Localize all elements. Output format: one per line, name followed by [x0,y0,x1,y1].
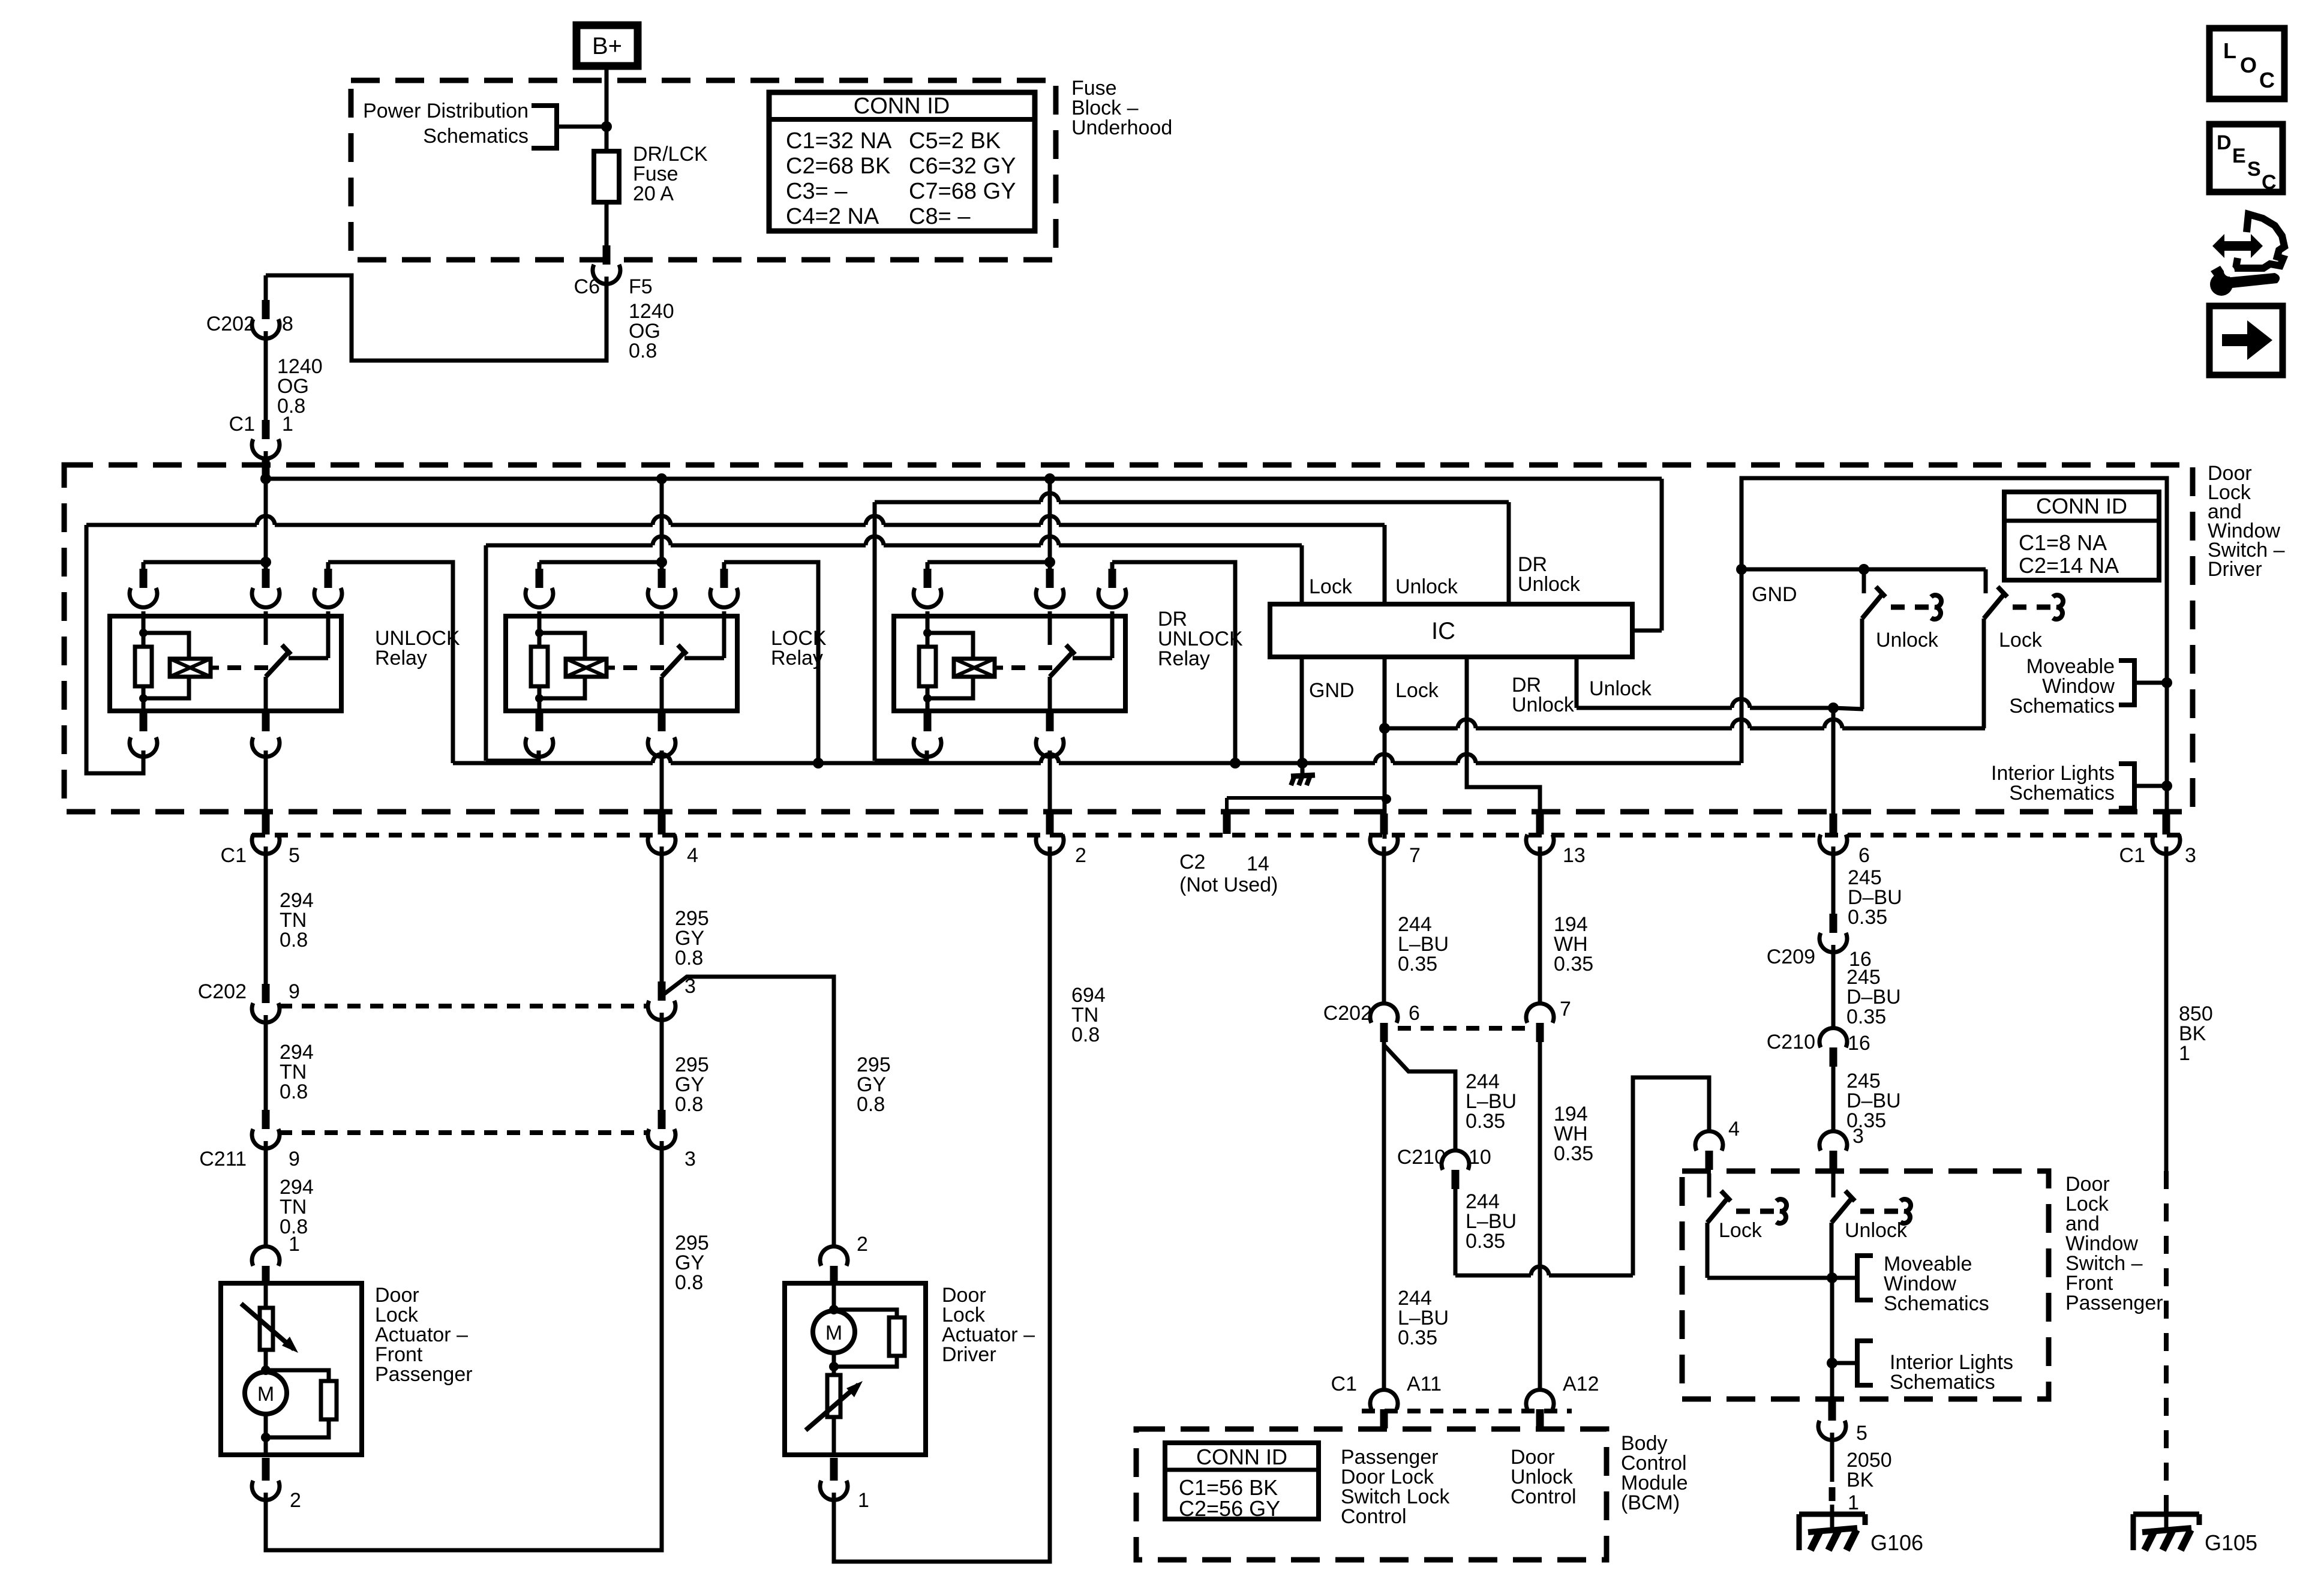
motor M (driver) [829,1305,839,1314]
svg-text:9: 9 [289,1148,300,1170]
relay UNLOCK (U1): top horizontal link [143,560,266,565]
svg-text:CONN ID: CONN ID [1196,1445,1287,1469]
wire: battery bus [266,477,1662,481]
conn-id table (fuse block) [769,92,1035,231]
wire: C210 to pin 3 [1831,1067,1836,1132]
connector C6 / F5 [603,245,611,265]
svg-text:13: 13 [1563,844,1586,867]
svg-text:CONN ID: CONN ID [854,94,950,119]
relay DR UNLOCK (U3): switch blade [1050,652,1073,677]
svg-text:C1: C1 [221,844,247,867]
svg-text:C202: C202 [1323,1002,1372,1025]
wire: C202-6 branch to C210-10 [1384,1045,1455,1152]
wire: C1-1 into switch assembly [264,451,268,479]
svg-text:2: 2 [857,1233,868,1256]
wire: relay common / ground bus [453,761,653,766]
svg-text:Lock: Lock [1395,679,1439,702]
variable resistor (FP actuator) [260,1308,273,1350]
wire: dr unlock relay coil return route [875,751,927,761]
bracket: power distribution reference [532,106,557,148]
svg-text:Schematics: Schematics [2009,695,2115,718]
wire: C202-8 to C1-1 [264,331,268,421]
svg-text:F5: F5 [629,275,653,298]
svg-text:Unlock: Unlock [1518,573,1581,596]
svg-text:Driver: Driver [942,1343,996,1366]
wire: C2-14 stub link [1227,796,1386,800]
relay DR UNLOCK (U3): output pin (bottom middle) [1046,713,1054,731]
relay LOCK (U2): actuation dashed link [606,666,615,670]
svg-text:(Not Used): (Not Used) [1179,873,1278,896]
relay LOCK (U2): switch blade [662,652,684,677]
svg-text:1: 1 [2179,1042,2190,1065]
connector line BCM [1362,1409,1572,1413]
relay UNLOCK (U1): coil (solenoid box) [143,633,189,659]
svg-text:6: 6 [1409,1002,1420,1025]
connector line C211 (9-3) [279,1130,648,1135]
svg-text:6: 6 [1858,844,1870,867]
wire: IC GND pin [1300,657,1304,763]
connector C202 pin 3 [658,981,666,1001]
svg-text:C5=2 BK: C5=2 BK [909,128,1001,154]
wire: 295 GY from C1-4 [660,846,664,982]
wire: lock relay coil return bus [486,544,653,548]
svg-text:C1=32 NA: C1=32 NA [786,128,892,154]
svg-text:C1: C1 [2119,844,2145,867]
svg-text:2: 2 [1075,844,1086,867]
connector C1 pin 2 [1046,813,1054,833]
svg-text:Schematics: Schematics [1890,1371,1995,1394]
svg-text:16: 16 [1848,1032,1870,1055]
relay UNLOCK (U1): common pin (middle) [264,562,268,579]
wire: C210-10 to FP lock switch [1454,1189,1458,1275]
svg-text:5: 5 [1856,1422,1867,1445]
svg-text:C202: C202 [206,313,255,335]
ground: internal chassis ground [1301,763,1305,775]
bracket: Moveable Window Schematics (driver) [2119,661,2134,705]
relay UNLOCK (U1): coil resistor [142,611,146,647]
relay LOCK (U2): coil (solenoid box) [539,633,585,659]
svg-text:(BCM): (BCM) [1621,1491,1680,1514]
svg-text:C210: C210 [1397,1146,1446,1169]
wire: unlock line to switch [1577,706,1732,710]
wire: lock relay output to common bus [724,562,818,763]
wire: relay feed verticals [264,479,268,564]
wire: IC Lock output to pin C1-7 column [1383,657,1387,839]
relay UNLOCK (U1): body [110,616,341,711]
svg-text:0.8: 0.8 [1071,1023,1100,1046]
svg-text:0.35: 0.35 [1848,906,1887,929]
svg-text:0.35: 0.35 [1398,953,1437,975]
wire: 294 TN C211-9 to actuator [264,1141,268,1247]
relay UNLOCK (U1): coil feed pin (left) [142,562,146,579]
svg-text:Passenger: Passenger [2065,1292,2163,1314]
relay UNLOCK (U1): switch blade [266,652,289,677]
wire: lock relay coil return route [486,751,539,761]
motor M (front passenger) [245,1372,287,1414]
svg-text:C7=68 GY: C7=68 GY [909,179,1016,204]
connector C202 pin 6 [1370,1004,1398,1023]
svg-text:C6=32 GY: C6=32 GY [909,154,1016,179]
svg-text:C2: C2 [1179,851,1205,873]
connector C211 pin 3 [658,1110,666,1129]
svg-text:Lock: Lock [1719,1219,1762,1242]
wire: C202-6 to BCM A11 [1382,1042,1386,1392]
connector C202 pin 8 [262,300,270,319]
svg-text:G105: G105 [2205,1530,2257,1555]
connector C1 pin 1 [262,420,270,439]
wire: 194 WH from C1-13 [1538,846,1542,1005]
svg-text:4: 4 [1728,1118,1740,1140]
door lock actuator - driver body [785,1283,926,1455]
ground G106 [1799,1512,1865,1517]
wire: 850 BK reference (dashed) [2164,1171,2169,1514]
svg-text:0.35: 0.35 [1466,1230,1505,1253]
relay UNLOCK (U1): coil return pin (bottom left) [140,713,148,731]
switch: Unlock (driver) [1862,569,1866,593]
relay DR UNLOCK (U3): body [894,616,1125,711]
svg-text:C2=68 BK: C2=68 BK [786,154,890,179]
conn-id table (BCM) [1165,1443,1319,1519]
svg-text:Unlock: Unlock [1876,629,1939,652]
connector BCM A11 [1370,1390,1398,1409]
svg-text:S: S [2247,158,2261,181]
svg-text:C2=14 NA: C2=14 NA [2019,553,2119,578]
node: battery bus at C1-1 [260,473,271,484]
svg-text:Unlock: Unlock [1395,575,1458,598]
svg-text:Relay: Relay [1158,647,1210,670]
svg-text:C1: C1 [229,413,255,436]
svg-text:20 A: 20 A [633,182,674,205]
svg-text:0.8: 0.8 [675,1093,703,1116]
bracket: Interior Lights Schematics (FP) [1857,1341,1873,1385]
svg-text:9: 9 [289,980,300,1003]
connector: FP switch pin 3 [1819,1131,1847,1151]
svg-text:7: 7 [1560,998,1571,1020]
wire: 294 TN C202-9 to C211-9 [264,1015,268,1110]
svg-text:0.35: 0.35 [1398,1326,1437,1349]
relay DR UNLOCK (U3): coil resistor [926,611,930,647]
door lock actuator - front passenger body [221,1283,362,1455]
body control module dashed outline [1136,1429,1607,1560]
relay LOCK (U2): common pin (middle) [660,562,664,579]
connector C210 pin 10 [1442,1151,1469,1170]
wire: FP switch common [1707,1276,1832,1280]
svg-text:Power Distribution: Power Distribution [363,100,529,122]
wire: pin 6 feed [1831,708,1836,816]
svg-text:D: D [2217,131,2232,154]
svg-text:B+: B+ [592,33,622,59]
bracket: Interior Lights Schematics (driver) [2119,764,2134,808]
wire: B+ to fuse [605,66,609,151]
relay DR UNLOCK (U3): coil (solenoid box) [927,633,973,659]
svg-text:0.8: 0.8 [280,1080,308,1103]
svg-text:M: M [825,1322,842,1344]
wire: dr unlock relay coil return bus [875,500,1041,505]
svg-text:C1: C1 [1331,1373,1357,1395]
svg-text:A12: A12 [1563,1373,1599,1395]
svg-text:Relay: Relay [375,647,427,670]
wire: switch ground link [1742,568,1986,572]
svg-text:C1=8 NA: C1=8 NA [2019,530,2107,555]
wire: unlock relay output to common bus [328,562,453,763]
connector C1 pin 6 [1830,813,1837,833]
wire: FP motor to pin 2 [264,1414,268,1455]
connector C1 pin 3 [2163,813,2170,833]
svg-text:5: 5 [289,844,300,867]
node: dr unlock output junction [1230,758,1241,769]
svg-text:Control: Control [1341,1505,1407,1528]
wire: lock line to switch [1385,727,1458,731]
connector C1 pin 4 [658,813,666,833]
svg-text:Relay: Relay [771,647,823,670]
wire: fuse to C6 connector [605,202,609,246]
relay LOCK (U2): body [506,616,737,711]
wire: dr unlock relay output to common bus [1112,562,1235,763]
svg-text:CONN ID: CONN ID [2036,494,2127,518]
icon: service arrow and wrench [2212,234,2263,258]
connector line C202 (6-7) [1398,1026,1527,1031]
svg-text:4: 4 [687,844,698,867]
svg-text:BK: BK [1846,1469,1874,1491]
svg-text:1: 1 [858,1489,869,1512]
node: lock output junction [813,758,824,769]
svg-text:C8= –: C8= – [909,204,971,229]
svg-text:E: E [2232,145,2246,167]
svg-text:Driver: Driver [2208,558,2262,581]
relay UNLOCK (U1): output pin (bottom middle) [262,713,270,731]
ground G105 [2133,1512,2199,1517]
wire: 294 TN from C1-5 [264,846,268,984]
connector C209 pin 16 [1830,914,1837,933]
svg-text:2: 2 [290,1489,301,1512]
svg-text:C4=2 NA: C4=2 NA [786,204,879,229]
svg-text:0.35: 0.35 [1466,1110,1505,1133]
switch: Lock (front passenger) [1707,1173,1712,1197]
node: unlock switch feed [1858,564,1869,575]
connector C1 pin 5 [262,813,270,833]
svg-text:M: M [257,1383,274,1406]
wire: IC Unlock output line [1575,657,1579,708]
svg-text:0.8: 0.8 [675,1271,703,1294]
svg-text:0.8: 0.8 [857,1093,885,1116]
svg-text:Control: Control [1511,1485,1577,1508]
svg-text:1: 1 [282,413,293,436]
node: IC GND junction [1297,758,1308,769]
door lock and window switch - front passenger dashed outline [1682,1171,2049,1399]
relay DR UNLOCK (U3): NO contact pin (right) [1110,562,1115,579]
svg-text:Unlock: Unlock [1512,694,1575,716]
fuse F5 DR/LCK 20A [594,151,619,202]
svg-text:A11: A11 [1407,1373,1442,1395]
svg-text:Underhood: Underhood [1071,116,1172,139]
connector C1 pin 7 [1380,813,1388,833]
wire: 2050 BK to G106 [1830,1433,1834,1482]
wire: 245 D-BU C1-6 to C209 [1831,846,1836,914]
wire: FP actuator internal [264,1350,268,1372]
svg-text:0.35: 0.35 [1554,953,1593,975]
wire: unlock relay output down to C1-5 [264,751,268,816]
connector: FP switch pin 5 [1828,1401,1836,1419]
svg-text:3: 3 [1852,1125,1864,1148]
node: fuse feed junction [601,121,612,132]
node: GND [1736,564,1747,575]
relay UNLOCK (U1): actuation dashed link [211,666,219,670]
connector C210 pin 16 [1819,1028,1847,1047]
relay UNLOCK (U1): NO contact pin (right) [326,562,331,579]
fuse block - underhood dashed outline [351,80,1056,260]
connector C1 pin 13 [1536,813,1544,833]
door lock and window switch - driver dashed outline [64,465,2193,812]
relay DR UNLOCK (U3): common pin (middle) [1048,562,1052,579]
connector: FP switch pin 4 [1695,1131,1723,1151]
connector line C202 (9-3) [279,1004,648,1008]
svg-text:O: O [2240,53,2257,77]
relay DR UNLOCK (U3): actuation dashed link [995,666,1003,670]
svg-text:7: 7 [1409,844,1421,867]
relay LOCK (U2): top horizontal link [539,560,662,565]
svg-text:1: 1 [1848,1491,1859,1514]
node: lock line junction [1379,723,1390,734]
svg-text:C211: C211 [199,1148,247,1170]
wire: driver actuator to pin 1 [832,1417,836,1455]
connector: front passenger actuator pin 1 [252,1247,280,1266]
resistor parallel (FP actuator) [266,1370,329,1381]
connector: driver actuator pin 2 [820,1247,848,1266]
bracket: Moveable Window Schematics (FP) [1857,1256,1873,1300]
IC U4 (driver switch logic) [1270,604,1632,657]
svg-text:C: C [2262,171,2277,194]
connector C202 pin 7 [1526,1004,1554,1023]
svg-text:IC: IC [1431,618,1455,644]
wire: dr unlock relay output down to C1-2 [1048,751,1052,816]
svg-text:3: 3 [684,1148,696,1170]
svg-text:L: L [2223,38,2236,63]
relay DR UNLOCK (U3): coil feed pin (left) [926,562,930,579]
svg-text:0.8: 0.8 [675,947,703,969]
conn-id table (driver switch) [2004,492,2159,580]
connector C211 pin 9 [262,1110,270,1129]
wire: C6 to C202-8 routing [266,275,606,361]
wire: lock relay output down to C1-4 [660,751,664,816]
variable resistor (driver actuator) [832,1353,836,1375]
svg-text:Passenger: Passenger [375,1363,473,1386]
wire: unlock relay coil return route [86,525,143,773]
connector C2 pin 14 (not used) [1225,798,1229,813]
switch: Lock (driver) [1984,569,1988,593]
power symbol B+ [577,25,638,66]
svg-text:GND: GND [1752,583,1797,606]
relay LOCK (U2): output pin (bottom middle) [658,713,666,731]
svg-text:GND: GND [1309,679,1355,702]
connector: FP actuator pin 2 [262,1458,270,1477]
icon: DESC box [2209,124,2283,192]
wire: FP switch to pin 5 [1830,1278,1834,1399]
wire: GND node vertical [1740,569,1744,763]
wire: unlock relay coil return bus [86,523,257,527]
svg-text:C209: C209 [1767,945,1815,968]
svg-text:0.35: 0.35 [1554,1142,1593,1165]
svg-text:C202: C202 [198,980,247,1003]
wire: C209 to C210 [1831,945,1836,1029]
svg-text:Schematics: Schematics [1884,1292,1989,1315]
icon: next-page arrow box [2209,306,2283,375]
connector BCM A12 [1526,1390,1554,1409]
relay DR UNLOCK (U3): coil return pin (bottom left) [924,713,932,731]
svg-text:C6: C6 [574,275,600,298]
wire: 295 GY C202-3 to C211-3 [660,1013,664,1110]
svg-text:3: 3 [2185,844,2196,867]
wire: driver switch frame [1742,478,2167,812]
svg-text:Unlock: Unlock [1845,1219,1908,1242]
icon: LOC box [2209,28,2284,99]
svg-text:Schematics: Schematics [2009,782,2115,804]
svg-text:C2=56 GY: C2=56 GY [1179,1496,1280,1521]
relay DR UNLOCK (U3): top horizontal link [927,560,1050,565]
node: unlock line junction [1828,703,1839,713]
resistor parallel (driver actuator) [834,1310,897,1317]
svg-text:Schematics: Schematics [423,125,529,148]
svg-text:C210: C210 [1767,1031,1815,1053]
relay LOCK (U2): NO contact pin (right) [722,562,726,579]
svg-text:0.8: 0.8 [629,340,657,362]
svg-text:C3= –: C3= – [786,179,848,204]
connector line C1/C2 (driver switch) [252,833,2184,837]
relay LOCK (U2): coil resistor [538,611,542,647]
wire: driver actuator return to 694 TN [834,846,1050,1562]
svg-text:G106: G106 [1870,1530,1923,1555]
switch: Unlock (front passenger) [1831,1173,1836,1197]
connector: driver actuator pin 1 [830,1458,838,1477]
svg-text:0.8: 0.8 [280,929,308,951]
svg-text:8: 8 [282,313,293,335]
svg-text:10: 10 [1469,1146,1491,1169]
svg-text:0.35: 0.35 [1846,1005,1886,1028]
wire: FP actuator return to 295 GY [266,1141,662,1550]
svg-text:Lock: Lock [1309,575,1353,598]
relay LOCK (U2): coil return pin (bottom left) [536,713,544,731]
wire: IC DR Unlock output to pin 13 [1467,657,1540,816]
wire: 244 L-BU from C1-7 [1382,846,1386,1005]
svg-text:Unlock: Unlock [1589,677,1652,700]
wire: 194 WH to BCM A12 [1538,1042,1542,1392]
connector C202 pin 9 [262,984,270,1003]
svg-text:Lock: Lock [1999,629,2043,652]
svg-text:1: 1 [289,1233,300,1256]
wire: 850 BK from C1-3 [2164,846,2169,1171]
wire: C202-3 branch to driver actuator [662,977,834,1247]
svg-text:C: C [2259,68,2275,92]
svg-text:14: 14 [1247,852,1269,875]
relay LOCK (U2): coil feed pin (left) [538,562,542,579]
